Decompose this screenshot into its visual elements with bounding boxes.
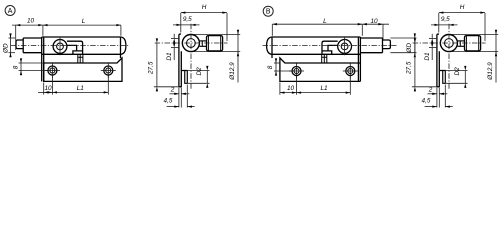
svg-text:27,5: 27,5 xyxy=(148,61,155,75)
vertical centreline (A side) xyxy=(190,24,192,90)
dim 10 ext lines (A front top) xyxy=(16,25,121,50)
svg-text:ØD: ØD xyxy=(2,43,9,54)
svg-text:H: H xyxy=(202,4,207,11)
svg-text:L: L xyxy=(323,18,327,25)
lever stop tab (B front) xyxy=(322,54,327,63)
lever arm (A front) xyxy=(67,41,83,54)
dim OD ext lines (B front right) xyxy=(390,38,416,53)
mounting hole right (B front) xyxy=(343,64,358,79)
knob neck (A side) xyxy=(200,41,207,46)
dim 10 (B front top) xyxy=(362,18,389,25)
dim 27.5 ext line (A side) xyxy=(154,86,179,88)
svg-text:2: 2 xyxy=(170,87,175,94)
dim 10 (A front top) xyxy=(12,18,43,27)
dim 12.9 ext lines (A side) xyxy=(193,34,240,51)
dim D1 (A side) xyxy=(166,34,175,61)
dim 10 (A front bottom) xyxy=(38,85,52,94)
svg-text:8: 8 xyxy=(13,65,20,69)
svg-text:H: H xyxy=(460,4,465,11)
dim ext lines (A front bottom) xyxy=(44,76,109,95)
dim H ext lines (B side) xyxy=(439,13,485,41)
svg-text:B: B xyxy=(266,9,271,16)
dim 10 (B front bottom) xyxy=(280,85,297,94)
dim D2 (B side) xyxy=(454,66,466,88)
mounting hole right (A front) xyxy=(101,63,116,78)
svg-text:L1: L1 xyxy=(320,85,328,92)
axis centreline (A front) xyxy=(11,45,130,47)
view label circle A xyxy=(5,6,15,16)
dim OD (A front left) xyxy=(2,33,11,57)
dim 4.5 ext line (B side) xyxy=(444,85,446,108)
mounting plate (A front) xyxy=(44,58,122,81)
view label circle B xyxy=(263,6,273,16)
dim D2 (A side) xyxy=(196,66,208,88)
dim L1 (A front bottom) xyxy=(52,85,108,94)
dim 9.5 (A side) xyxy=(173,16,200,26)
axis centreline (B side) xyxy=(413,42,486,44)
latch bolt (B front) xyxy=(360,38,382,53)
guide ring (B side) xyxy=(440,35,457,52)
bolt guide block (A side) xyxy=(181,71,187,84)
dim 27.5 ext line (B side) xyxy=(412,86,437,88)
bracket plate edge (B side) xyxy=(437,34,439,87)
bolt guide block (B side) xyxy=(439,71,445,84)
dim D1 ext lines (B side) xyxy=(429,38,436,47)
knurled knob (A side) xyxy=(207,36,223,51)
lever stop tab (A front) xyxy=(78,54,83,63)
axis centreline (A side) xyxy=(155,42,228,44)
housing domed end (B front) xyxy=(267,37,272,58)
latch bolt (A front) xyxy=(23,38,42,53)
dim 2 (A side) xyxy=(170,87,190,95)
svg-text:27,5: 27,5 xyxy=(406,61,413,75)
bracket plate edge (A side) xyxy=(179,34,181,87)
dim 4.5 (A side) xyxy=(164,98,195,108)
svg-text:D1: D1 xyxy=(424,52,431,61)
svg-text:4,5: 4,5 xyxy=(422,98,431,105)
guide ring (A side) xyxy=(182,35,199,52)
mounting plate (B front) xyxy=(280,58,361,81)
lever arm (B front) xyxy=(322,41,338,54)
housing domed end (A front) xyxy=(121,37,126,54)
dim L (B front top) xyxy=(272,18,362,25)
svg-text:9,5: 9,5 xyxy=(441,16,450,23)
dim D2 ext lines (B side) xyxy=(446,71,468,84)
dim OD (B front right) xyxy=(406,33,416,57)
dim D1 (B side) xyxy=(424,34,433,61)
latch bolt nose (B front) xyxy=(383,40,391,49)
dim D2 ext lines (A side) xyxy=(188,71,210,84)
dim OD ext lines (A front left) xyxy=(9,38,16,53)
dim 2 (B side) xyxy=(428,87,448,95)
dim 8 ext lines (B front) xyxy=(274,63,292,71)
dim 9.5 (B side) xyxy=(431,16,458,26)
dim 8 (B front) xyxy=(267,58,277,75)
dim 2 ext lines (B side) xyxy=(437,88,439,108)
knob neck (B side) xyxy=(458,41,465,46)
svg-text:D1: D1 xyxy=(166,52,173,61)
svg-text:ØD: ØD xyxy=(406,43,413,54)
svg-text:L1: L1 xyxy=(77,85,85,92)
knurled knob (B side) xyxy=(465,36,481,51)
dim 8 (A front) xyxy=(13,58,23,75)
dim 27.5 (A side) xyxy=(148,38,158,91)
dim 4.5 (B side) xyxy=(422,98,453,108)
dim H (B side) xyxy=(439,4,485,14)
svg-text:D2: D2 xyxy=(454,67,461,76)
dim L (A front top) xyxy=(43,18,121,26)
mounting hole left (B front) xyxy=(289,64,304,79)
svg-text:2: 2 xyxy=(428,87,433,94)
housing tube (B front) xyxy=(272,37,360,81)
vertical centreline (B side) xyxy=(448,24,450,90)
dim 8 ext lines (A front) xyxy=(19,63,48,71)
svg-text:A: A xyxy=(8,8,13,15)
dim H (A side) xyxy=(181,4,227,14)
svg-text:D2: D2 xyxy=(196,67,203,76)
dim 4.5 ext line (A side) xyxy=(186,85,188,108)
knob boss circle (B front) xyxy=(338,38,352,56)
dim 27.5 (B side) xyxy=(406,38,416,91)
svg-text:10: 10 xyxy=(27,18,35,25)
dim H ext lines (A side) xyxy=(181,13,227,41)
svg-text:10: 10 xyxy=(287,85,295,92)
housing tube (A front) xyxy=(42,37,121,81)
svg-text:10: 10 xyxy=(370,18,378,25)
knob boss circle (A front) xyxy=(53,38,67,56)
axis centreline (B front) xyxy=(263,45,397,47)
svg-text:10: 10 xyxy=(44,85,52,92)
dim L1 (B front bottom) xyxy=(297,85,351,94)
svg-text:9,5: 9,5 xyxy=(183,16,192,23)
dim 12.9 (A side) xyxy=(229,30,239,83)
mounting hole left (A front) xyxy=(45,63,60,78)
svg-text:4,5: 4,5 xyxy=(164,98,173,105)
svg-text:Ø12,9: Ø12,9 xyxy=(229,62,236,81)
dim 2 ext lines (A side) xyxy=(179,88,181,108)
latch bolt nose (A front) xyxy=(16,40,23,49)
dim 12.9 ext lines (B side) xyxy=(451,34,498,51)
svg-text:L: L xyxy=(82,18,86,25)
dim 12.9 (B side) xyxy=(487,30,497,83)
svg-text:8: 8 xyxy=(267,65,274,69)
dim ext lines (B front top) xyxy=(272,24,383,39)
svg-text:Ø12,9: Ø12,9 xyxy=(487,62,494,81)
dim ext lines (B front bottom) xyxy=(280,76,350,95)
dim D1 ext lines (A side) xyxy=(171,38,178,47)
